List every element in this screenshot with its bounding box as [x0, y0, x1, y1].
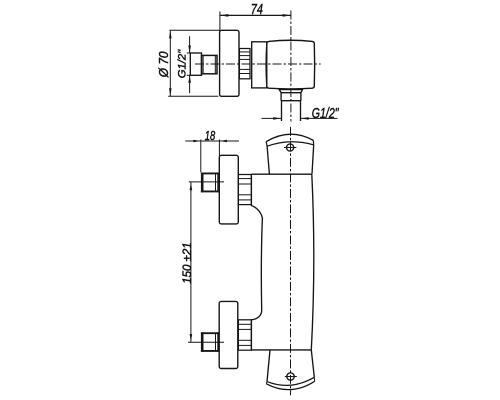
dia70 ext top	[170, 29, 220, 31]
G1/2 bottom arrow right	[273, 117, 281, 120]
top bracket inner arc	[267, 142, 314, 147]
dim 18 line	[185, 140, 239, 142]
square nut on thread	[202, 55, 218, 73]
valve body (side view)	[266, 40, 315, 89]
dia70 arrow up	[169, 30, 172, 38]
bottom bracket left side	[267, 350, 270, 382]
bottom junction line	[251, 349, 311, 351]
svg-text:G1/2": G1/2"	[177, 49, 189, 78]
top screw slot	[284, 147, 296, 149]
bottom bracket inner arc	[267, 377, 314, 385]
knurl ribs	[239, 51, 250, 53]
top bracket outer arc	[266, 134, 313, 141]
ext ticks for G1/2 left dim	[187, 52, 191, 54]
nut face line left	[202, 56, 204, 74]
top bracket left edge	[266, 142, 267, 147]
dimension 74 right arrow	[283, 14, 291, 17]
150 dim line	[190, 182, 192, 342]
bottom screw slot	[285, 376, 297, 378]
lower hex face line	[215, 333, 217, 351]
ext line wall	[218, 140, 220, 156]
escutcheon side view	[220, 30, 239, 96]
front view vertical centerline	[290, 127, 292, 395]
dia70 ext bottom	[168, 95, 218, 97]
dimension 74 line	[220, 14, 291, 16]
G1/2 left dim arrow down	[188, 46, 191, 54]
extension line left (wall plane)	[219, 12, 221, 31]
dim 18 left arrow	[193, 140, 201, 143]
lower hex nut	[201, 333, 219, 351]
bottom bracket rim connectors	[265, 382, 268, 384]
top bracket right edge	[312, 140, 314, 145]
upper hex face line	[215, 173, 217, 191]
svg-text:Ø 70: Ø 70	[157, 51, 171, 78]
G1/2 thread pipe (left stub)	[190, 53, 201, 75]
dim 18 right arrow	[219, 140, 227, 143]
knurled ring nut (side view)	[239, 49, 250, 79]
bottom bracket right side	[311, 350, 314, 377]
upper fitting centerline	[189, 181, 224, 183]
svg-text:18: 18	[205, 130, 216, 144]
ext line hex left	[200, 140, 202, 173]
top bracket right side	[312, 145, 314, 174]
nut face line right	[214, 56, 216, 74]
column right edge	[311, 174, 314, 350]
top screw circle	[287, 144, 294, 151]
top junction line	[251, 173, 311, 175]
upper hex nut	[201, 173, 219, 191]
horizontal centerline top view	[195, 63, 321, 65]
G1/2 bottom dim left segment	[262, 117, 282, 119]
lower wall plate	[219, 301, 238, 368]
G1/2 left dim line bottom	[189, 75, 191, 93]
svg-text:74: 74	[251, 0, 263, 17]
svg-text:150 ±21: 150 ±21	[182, 242, 194, 284]
dia70 arrow down	[169, 88, 172, 96]
upper wall plate	[219, 155, 238, 224]
outlet pipe	[282, 101, 301, 121]
outlet centerline vertical (also ext of 74)	[290, 11, 292, 122]
column left edge incl valve curves	[251, 175, 262, 350]
outlet flange	[279, 90, 302, 93]
G1/2 left dim line top	[189, 36, 191, 53]
lower knurled nut front	[238, 320, 251, 350]
dia70 dim line	[169, 30, 171, 96]
lower fitting centerline	[188, 341, 224, 343]
upper knurled nut front	[238, 175, 251, 205]
G1/2 bottom dim right segment	[301, 117, 338, 119]
bottom bracket outer arc	[266, 381, 314, 389]
bottom screw circle	[287, 373, 294, 380]
top bracket left side	[267, 146, 269, 174]
G1/2 bottom arrow left	[301, 117, 309, 120]
collar	[252, 42, 267, 88]
svg-text:G1/2": G1/2"	[312, 105, 339, 121]
G1/2 left dim arrow up	[188, 75, 191, 83]
150 arrow down	[190, 334, 193, 342]
outlet nut band	[281, 93, 301, 101]
dimension 74 left arrow	[220, 14, 228, 17]
150 arrow up	[190, 182, 193, 190]
